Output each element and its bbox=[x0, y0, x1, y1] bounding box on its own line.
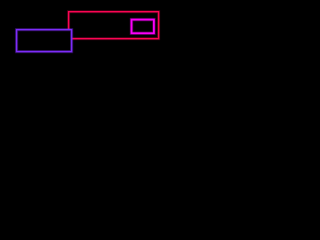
magenta bounding box bbox=[132, 20, 154, 34]
blue bounding box glow bbox=[17, 30, 72, 52]
red bounding box bbox=[69, 12, 159, 39]
magenta bounding box glow bbox=[132, 20, 154, 34]
red bounding box glow bbox=[69, 12, 159, 39]
blue bounding box bbox=[17, 30, 72, 52]
blue bounding box fill mask bbox=[17, 30, 72, 52]
